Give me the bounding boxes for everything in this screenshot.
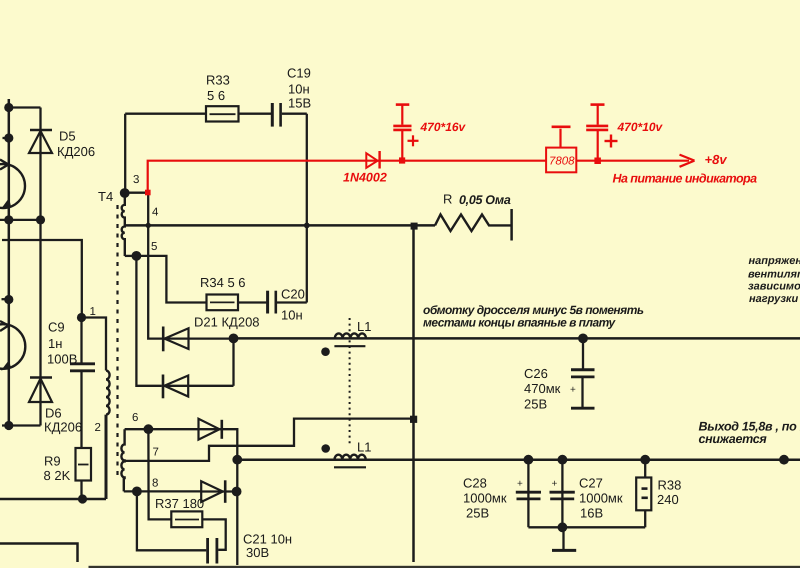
node: junction dot pin2 rail bbox=[78, 494, 87, 503]
wire: upper output rail y338 bbox=[234, 337, 800, 340]
diode D6 cathode bar bbox=[30, 376, 52, 379]
wire: C21 left lead to pin8 bbox=[137, 491, 206, 550]
transistor Q-upper base chevron bbox=[0, 160, 9, 165]
node: junction dot top-left bbox=[4, 103, 13, 112]
resistor R9 inner dash bbox=[78, 464, 89, 466]
wire: D-lower to vertical bbox=[201, 490, 237, 492]
node: D-lower junction dot bbox=[232, 487, 242, 497]
diode D-lower cathode bar bbox=[224, 480, 227, 503]
capacitor 470*10v top stem bbox=[597, 105, 599, 125]
transistor Q-upper (circle, clipped at edge) bbox=[0, 164, 25, 208]
svg-text:D6: D6 bbox=[45, 406, 62, 421]
svg-text:+: + bbox=[517, 479, 523, 490]
svg-text:D5: D5 bbox=[59, 129, 76, 144]
capacitor 470*10v top bar bbox=[591, 103, 605, 106]
wire: node 4 center-tap line bbox=[125, 224, 435, 227]
diode D5 triangle bbox=[29, 131, 52, 153]
wire: vertical join to output dot bbox=[232, 338, 234, 385]
node: rectifier output dot bbox=[229, 334, 239, 344]
node: junction dot with left stub bbox=[4, 133, 13, 142]
svg-text:+8v: +8v bbox=[705, 152, 728, 167]
svg-text:1н: 1н bbox=[48, 336, 62, 351]
wire: pin3 dot to red node bbox=[125, 192, 148, 194]
wire: D21b to vertical join bbox=[163, 385, 234, 387]
svg-text:нагрузки: нагрузки bbox=[749, 293, 799, 305]
svg-text:КД206: КД206 bbox=[44, 420, 82, 435]
svg-text:C19: C19 bbox=[287, 66, 311, 81]
svg-text:25В: 25В bbox=[524, 397, 547, 412]
wire: pin6 horizontal bbox=[125, 428, 199, 430]
capacitor C9 top lead bbox=[80, 318, 82, 363]
svg-text:470*16v: 470*16v bbox=[420, 120, 467, 134]
wire: pin 2 bottom rail bbox=[0, 498, 106, 501]
svg-text:10н: 10н bbox=[288, 82, 310, 97]
wire: R34 to C20 bbox=[238, 301, 266, 303]
svg-text:R38: R38 bbox=[658, 478, 682, 493]
svg-text:R34 5 6: R34 5 6 bbox=[200, 275, 246, 290]
regulator 7808 top stem bbox=[559, 129, 561, 148]
node: emitter junction dot bbox=[4, 215, 13, 224]
transformer T4 core (dashed) bbox=[116, 205, 118, 475]
svg-text:470мк: 470мк bbox=[524, 381, 561, 396]
plus red cap2 bbox=[605, 135, 618, 148]
svg-text:местами концы впаяные в плату: местами концы впаяные в плату bbox=[423, 315, 616, 329]
transistor Q-lower emitter arrow bbox=[1, 360, 11, 371]
svg-text:R37 180: R37 180 bbox=[155, 496, 204, 511]
arrow: +8v output bbox=[680, 155, 695, 161]
wire: pin3 up to R33 bbox=[124, 114, 126, 193]
capacitor C9 plates bbox=[70, 362, 95, 365]
svg-text:C26: C26 bbox=[524, 366, 548, 381]
diode D5 cathode bar bbox=[30, 129, 52, 132]
wire: R37 right to C21 right bbox=[202, 519, 225, 549]
transistor Q-upper emitter arrow bbox=[1, 198, 11, 209]
wire: ground rail y527 bbox=[528, 526, 645, 528]
capacitor C26 top lead bbox=[582, 338, 584, 369]
node: C27 junction dot bbox=[558, 455, 568, 465]
capacitor C26 terminal bar bbox=[571, 407, 595, 410]
wire: to R33 left bbox=[125, 113, 206, 115]
svg-text:8: 8 bbox=[152, 478, 158, 490]
terminal bar below C27 bbox=[552, 549, 576, 552]
wire: R9 to bottom rail bbox=[80, 481, 82, 500]
diode D-upper (pin6) triangle bbox=[199, 419, 220, 440]
capacitor C28 lead bbox=[527, 460, 529, 528]
svg-text:C27: C27 bbox=[579, 476, 603, 491]
node 5: junction dot bbox=[132, 251, 142, 261]
scan edge bottom band bbox=[89, 566, 800, 568]
svg-text:На питание индикатора: На питание индикатора bbox=[613, 172, 758, 186]
svg-text:7: 7 bbox=[153, 447, 159, 459]
wire: snubber vertical x307 bbox=[306, 114, 308, 303]
node: junction dot on D5 line bbox=[36, 215, 45, 224]
svg-text:15В: 15В bbox=[288, 96, 311, 111]
svg-text:C28: C28 bbox=[463, 476, 487, 491]
terminal bar R 0.05 bbox=[510, 209, 513, 241]
inductor L1 lower core bar bbox=[334, 466, 366, 468]
svg-text:L1: L1 bbox=[357, 440, 371, 455]
wire: horizontal y425 to D6 bottom bbox=[2, 424, 41, 426]
diode 1N4002 triangle bbox=[366, 153, 377, 168]
capacitor 470*16v plates bbox=[393, 125, 411, 128]
wire: C27 to terminal bar bbox=[562, 527, 564, 549]
capacitor 470*16v top bar bbox=[396, 103, 410, 106]
svg-text:D21 КД208: D21 КД208 bbox=[194, 315, 260, 330]
wire: D-upper to vertical bbox=[199, 429, 238, 565]
capacitor C19 plates bbox=[271, 103, 274, 127]
svg-text:1000мк: 1000мк bbox=[463, 491, 507, 506]
node: red square junction 1 bbox=[399, 157, 405, 163]
node: junction dot right end bbox=[779, 455, 789, 465]
svg-text:3: 3 bbox=[133, 174, 139, 186]
wire: top-left horizontal to D5 branch bbox=[9, 106, 41, 108]
capacitor 470*10v plates bbox=[586, 125, 608, 128]
svg-text:зависимости: зависимости bbox=[748, 281, 800, 293]
wire: horizontal between dots y220 bbox=[0, 219, 41, 221]
wire: primary winding bottom to pin 2 rail bbox=[105, 415, 108, 499]
resistor R34 body bbox=[207, 295, 239, 311]
diode D21a cathode bar bbox=[162, 327, 165, 352]
node: square junction pin7 tie bbox=[410, 416, 417, 423]
svg-text:8 2K: 8 2K bbox=[44, 468, 71, 483]
resistor R38 bottom lead bbox=[644, 510, 646, 527]
diode D21b cathode bar bbox=[162, 375, 165, 399]
svg-text:T4: T4 bbox=[98, 189, 113, 204]
svg-text:2: 2 bbox=[95, 422, 101, 434]
svg-text:30В: 30В bbox=[246, 545, 269, 560]
svg-text:R: R bbox=[443, 192, 452, 207]
svg-text:R33: R33 bbox=[206, 73, 230, 88]
svg-text:0,05 Ома: 0,05 Ома bbox=[459, 193, 511, 207]
wire: D5 branch vertical upper bbox=[39, 108, 41, 220]
wire: D21a to output dot bbox=[163, 337, 233, 339]
svg-text:4: 4 bbox=[152, 207, 159, 219]
wire: D5 line down to D6 bbox=[39, 220, 41, 426]
node: output dot plus rail bbox=[232, 455, 242, 465]
wire: node1 to primary winding top bbox=[82, 318, 107, 371]
plus red cap1 bbox=[408, 135, 419, 146]
svg-text:1000мк: 1000мк bbox=[579, 491, 623, 506]
node: red square junction 2 bbox=[594, 158, 601, 165]
svg-text:+: + bbox=[570, 385, 576, 396]
svg-text:1: 1 bbox=[90, 306, 96, 318]
node: junction dot mid-left bbox=[4, 295, 13, 304]
capacitor 470*10v lead bbox=[597, 131, 599, 158]
wire: main vertical node-4 bus bbox=[412, 226, 415, 562]
regulator 7808 top bar bbox=[552, 126, 571, 129]
svg-text:L1: L1 bbox=[357, 319, 371, 334]
capacitor C21 plates bbox=[206, 538, 209, 564]
resistor R37 inner line bbox=[175, 519, 199, 521]
resistor R38 inner dashes bbox=[642, 487, 648, 490]
inductor L1 upper core bar bbox=[334, 345, 365, 347]
wire: bottom-left step bbox=[0, 544, 78, 563]
svg-text:напряжение: напряжение bbox=[749, 255, 800, 267]
transformer T4 primary winding bbox=[106, 371, 110, 415]
capacitor C27 plates bbox=[550, 491, 575, 494]
wire: pin8 horizontal bbox=[124, 490, 201, 492]
wire: red +8v feed from pin3 bbox=[148, 161, 689, 190]
capacitor C26 bottom lead bbox=[581, 377, 583, 407]
node 1: junction dot bbox=[77, 313, 86, 322]
wire: winding to pin5 dot bbox=[125, 255, 137, 257]
capacitor C20 plates bbox=[266, 291, 269, 314]
resistor R33 inner line bbox=[210, 113, 236, 115]
node 6: junction dot bbox=[144, 424, 154, 434]
svg-text:снижается: снижается bbox=[699, 432, 768, 446]
diode D21a triangle bbox=[165, 328, 189, 349]
regulator 7808 box bbox=[546, 148, 576, 173]
transistor Q-lower base chevron bbox=[0, 321, 9, 326]
inductor L1 polarity dot upper bbox=[321, 347, 330, 356]
node: small junction at x148 bbox=[146, 223, 151, 228]
resistor R37 body bbox=[171, 511, 202, 527]
wire: pin5 down to D21b bbox=[136, 256, 161, 386]
wire: pin6 down to R37 bbox=[148, 429, 171, 519]
capacitor 470*16v top stem bbox=[401, 105, 403, 125]
node: C26 junction dot bbox=[578, 334, 588, 344]
svg-text:470*10v: 470*10v bbox=[617, 120, 664, 134]
diode D21b triangle bbox=[164, 376, 188, 397]
svg-text:6: 6 bbox=[132, 412, 138, 424]
resistor R 0.05 Ohm zigzag bbox=[435, 215, 512, 232]
svg-text:5 6: 5 6 bbox=[207, 88, 225, 103]
wire: C20 to snubber vertical bbox=[277, 301, 307, 303]
svg-text:7808: 7808 bbox=[549, 156, 575, 168]
wire: pin5 to R34 drop bbox=[136, 256, 206, 303]
diode D-upper cathode bar bbox=[221, 420, 224, 439]
diode D6 triangle bbox=[29, 379, 52, 403]
svg-text:16В: 16В bbox=[580, 506, 603, 521]
inductor L1 lower winding bbox=[335, 455, 366, 460]
svg-text:25В: 25В bbox=[466, 506, 489, 521]
node: small junction at x307 bbox=[304, 223, 310, 229]
svg-text:вентилятора: вентилятора bbox=[748, 269, 800, 281]
node: C28 junction dot bbox=[524, 455, 534, 465]
transistor Q-lower (circle, clipped at edge) bbox=[0, 324, 25, 369]
inductor L1 core (dotted) bbox=[349, 318, 351, 446]
wire: C19 to right vertical bbox=[282, 113, 307, 115]
node: rail junction dot bbox=[558, 522, 568, 532]
node: R38 junction dot bbox=[640, 455, 650, 465]
svg-text:R9: R9 bbox=[44, 454, 61, 469]
wire: horizontal crossing y240 to node 1 bbox=[2, 240, 82, 318]
wire: pin3 down to D21a bbox=[148, 193, 162, 339]
resistor R38 top lead bbox=[644, 460, 646, 478]
inductor L1 upper winding bbox=[335, 333, 366, 338]
inductor L1 polarity dot lower bbox=[321, 444, 330, 453]
transformer T4 secondary 6-8 winding bbox=[121, 429, 124, 491]
diode D-lower (pin8) triangle bbox=[201, 481, 223, 502]
node 3: junction dot bbox=[120, 188, 130, 198]
wire: pin7 path bbox=[125, 419, 414, 461]
svg-text:240: 240 bbox=[657, 492, 679, 507]
capacitor 470*16v lead bbox=[401, 131, 403, 158]
svg-text:КД206: КД206 bbox=[57, 144, 95, 159]
svg-text:5: 5 bbox=[151, 241, 157, 253]
resistor R9 body bbox=[76, 448, 92, 481]
capacitor C9 bottom lead bbox=[80, 372, 82, 448]
resistor R33 body bbox=[206, 106, 239, 121]
diode 1N4002 cathode bar bbox=[378, 151, 380, 169]
svg-text:C9: C9 bbox=[48, 320, 65, 335]
svg-text:1N4002: 1N4002 bbox=[343, 171, 387, 185]
capacitor C27 lead bbox=[561, 460, 563, 528]
svg-text:+: + bbox=[552, 479, 558, 490]
resistor R34 inner line bbox=[210, 301, 235, 303]
wire: R33 to C19 bbox=[239, 113, 272, 115]
node: junction dot bottom of left bus bbox=[4, 421, 13, 430]
node: square junction R-sense bbox=[411, 223, 418, 230]
wire: lower output rail y460 bbox=[237, 458, 800, 461]
resistor R38 body bbox=[636, 478, 651, 511]
capacitor C26 plates bbox=[571, 368, 595, 371]
node 8: junction dot bbox=[132, 487, 142, 497]
node: red square on pin3 bbox=[145, 190, 151, 196]
wire: left main vertical bus bbox=[8, 99, 11, 426]
svg-text:10н: 10н bbox=[281, 308, 303, 323]
svg-text:C20: C20 bbox=[281, 287, 305, 302]
transformer T4 secondary 3-4 winding bbox=[122, 193, 125, 256]
capacitor C28 plates bbox=[516, 491, 541, 494]
svg-text:100В: 100В bbox=[47, 352, 77, 367]
